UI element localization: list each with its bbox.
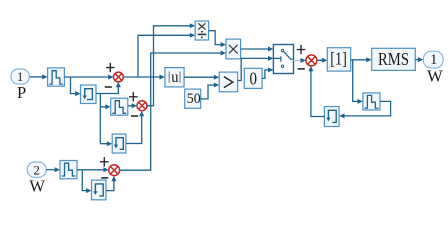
svg-text:u: u xyxy=(171,69,178,86)
relational operator block > xyxy=(219,72,237,92)
loop block C xyxy=(112,134,126,153)
product block xyxy=(226,39,241,59)
wire pulse F to sum S3 with branch to loop E xyxy=(77,167,109,193)
constant 50 xyxy=(185,89,201,108)
wire inport 2 to pulse F xyxy=(46,167,60,172)
wire constant 50 to relational operator xyxy=(201,83,220,99)
divide block xyxy=(195,21,208,40)
loop block D xyxy=(324,107,339,127)
wire abs block to relational operator xyxy=(184,75,219,80)
wire constant 0 to switch bottom input xyxy=(262,67,273,78)
svg-text:RMS: RMS xyxy=(378,49,409,69)
wire switch to sum S4 (pale) xyxy=(294,58,306,63)
constant 0 xyxy=(244,68,262,88)
sum S2 xyxy=(129,92,147,116)
wire sum S1 to abs block with branch to divide bottom input xyxy=(123,33,195,80)
wire loop D to sum S4 minus xyxy=(308,66,324,117)
unit conversion block [1] xyxy=(327,48,350,71)
pulse block B xyxy=(111,98,128,115)
wire pulse A to sum S1 with branch to loop B xyxy=(64,75,113,97)
svg-text:50: 50 xyxy=(187,91,201,107)
wire loop C to sum S2 minus xyxy=(126,111,144,144)
pulse block E xyxy=(363,93,380,110)
svg-text:P: P xyxy=(17,83,26,102)
sum S3 xyxy=(100,157,120,178)
RMS block xyxy=(372,48,416,70)
wire inport1 to pulse A xyxy=(30,74,48,79)
sum S4 xyxy=(297,45,317,69)
wire loop B out to sum S1 minus, branches to pulse B and loop C xyxy=(96,82,121,146)
svg-text:W: W xyxy=(29,176,45,195)
wire divide block to product block top input xyxy=(209,31,226,47)
outport 1 (W) xyxy=(423,51,443,85)
loop block B xyxy=(81,85,97,104)
wire relational operator to switch control input xyxy=(238,56,274,81)
svg-text:W: W xyxy=(427,67,443,86)
wire sum S4 to unit conversion [1] xyxy=(317,58,327,63)
switch block xyxy=(273,45,293,74)
wire product block to switch top input xyxy=(241,47,274,52)
pulse block A xyxy=(48,68,65,86)
wire RMS to outport xyxy=(415,57,423,62)
svg-text:1: 1 xyxy=(17,69,24,84)
loop block E xyxy=(92,180,107,200)
wire [1] to RMS with branch down to pulse E xyxy=(351,57,372,104)
wire pulse E to loop D (leftwards) xyxy=(339,101,391,118)
wire pulse B to sum S2 xyxy=(128,103,137,108)
sum S1 xyxy=(105,63,124,87)
wire sum S3 to product block lower input xyxy=(120,51,226,171)
svg-text:[1]: [1] xyxy=(330,48,347,68)
svg-text:2: 2 xyxy=(33,162,40,177)
pulse block F xyxy=(60,161,77,179)
svg-text:0: 0 xyxy=(250,69,258,89)
inport 2 (W) xyxy=(27,162,46,195)
inport 1 (P) xyxy=(11,69,29,102)
wire sum S2 to divide block top input xyxy=(147,23,195,105)
wire loop E to sum S3 minus xyxy=(106,176,116,191)
abs block |u| xyxy=(165,68,184,87)
